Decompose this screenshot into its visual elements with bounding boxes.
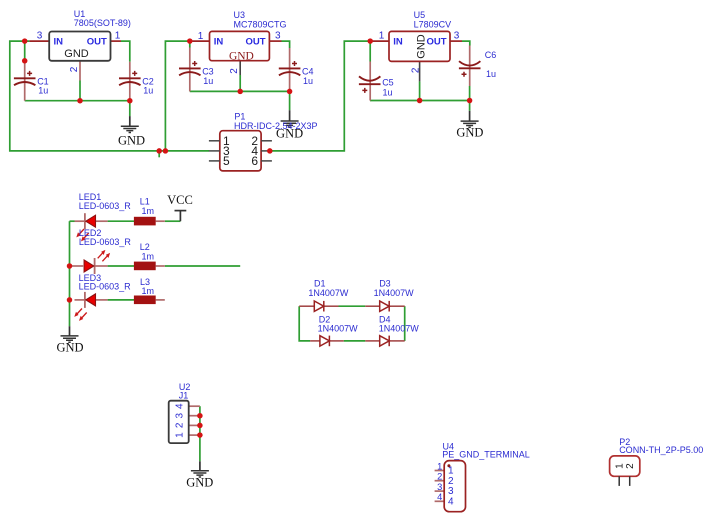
svg-text:LED-0603_R: LED-0603_R <box>79 237 132 247</box>
svg-text:U5: U5 <box>414 10 426 20</box>
svg-text:2: 2 <box>411 67 422 73</box>
svg-text:3: 3 <box>454 31 460 42</box>
svg-text:2: 2 <box>69 66 80 72</box>
svg-text:4: 4 <box>448 496 454 507</box>
svg-text:CONN-TH_2P-P5.00: CONN-TH_2P-P5.00 <box>619 445 703 455</box>
svg-text:4: 4 <box>174 403 185 409</box>
svg-text:GND: GND <box>186 475 213 489</box>
svg-text:1N4007W: 1N4007W <box>318 324 359 334</box>
svg-text:GND: GND <box>415 34 427 59</box>
svg-text:1N4007W: 1N4007W <box>308 288 349 298</box>
svg-text:J1: J1 <box>179 390 189 400</box>
svg-text:6: 6 <box>251 154 258 168</box>
svg-text:2: 2 <box>625 463 636 469</box>
svg-text:1m: 1m <box>142 251 155 261</box>
svg-text:2: 2 <box>174 422 185 428</box>
svg-text:1m: 1m <box>142 286 155 296</box>
svg-text:1: 1 <box>115 31 121 42</box>
svg-text:GND: GND <box>229 50 254 62</box>
svg-text:PE_GND_TERMINAL: PE_GND_TERMINAL <box>442 450 530 460</box>
svg-text:1: 1 <box>174 432 185 438</box>
svg-text:1: 1 <box>379 31 385 42</box>
svg-text:IN: IN <box>214 36 224 47</box>
svg-text:IN: IN <box>54 36 64 47</box>
svg-text:3: 3 <box>437 482 442 492</box>
svg-text:1u: 1u <box>203 76 213 86</box>
svg-text:OUT: OUT <box>246 36 266 47</box>
svg-text:GND: GND <box>64 48 89 60</box>
svg-text:1N4007W: 1N4007W <box>374 288 415 298</box>
svg-text:1u: 1u <box>486 69 496 79</box>
svg-text:GND: GND <box>56 341 83 355</box>
svg-text:HDR-IDC-2.54-2X3P: HDR-IDC-2.54-2X3P <box>234 121 318 131</box>
svg-text:1m: 1m <box>142 206 155 216</box>
svg-text:LED-0603_R: LED-0603_R <box>79 201 132 211</box>
svg-text:C6: C6 <box>485 50 497 60</box>
svg-text:OUT: OUT <box>87 36 107 47</box>
svg-text:L1: L1 <box>140 196 150 206</box>
svg-text:1u: 1u <box>143 86 153 96</box>
svg-text:1u: 1u <box>303 76 313 86</box>
svg-text:1u: 1u <box>38 86 48 96</box>
svg-text:7805(SOT-89): 7805(SOT-89) <box>74 18 131 28</box>
svg-text:VCC: VCC <box>167 193 193 207</box>
svg-text:LED-0603_R: LED-0603_R <box>79 281 132 291</box>
svg-text:GND: GND <box>118 133 145 147</box>
svg-text:GND: GND <box>456 126 483 140</box>
svg-text:OUT: OUT <box>426 37 446 48</box>
svg-text:U3: U3 <box>234 10 246 20</box>
svg-text:1N4007W: 1N4007W <box>379 324 420 334</box>
svg-text:1: 1 <box>437 461 442 471</box>
svg-text:5: 5 <box>223 154 230 168</box>
svg-text:3: 3 <box>275 31 281 42</box>
svg-text:1: 1 <box>198 31 204 42</box>
svg-text:1u: 1u <box>383 88 393 98</box>
svg-text:1: 1 <box>448 465 454 476</box>
svg-text:L7809CV: L7809CV <box>414 20 452 30</box>
svg-text:MC7809CTG: MC7809CTG <box>234 20 287 30</box>
svg-text:3: 3 <box>37 31 43 42</box>
svg-text:IN: IN <box>393 37 403 48</box>
svg-text:L2: L2 <box>140 242 150 252</box>
svg-text:3: 3 <box>174 412 185 418</box>
svg-text:2: 2 <box>229 68 240 74</box>
svg-text:4: 4 <box>437 492 442 502</box>
svg-text:1: 1 <box>615 463 626 469</box>
svg-text:C5: C5 <box>382 77 394 87</box>
svg-text:2: 2 <box>437 472 442 482</box>
